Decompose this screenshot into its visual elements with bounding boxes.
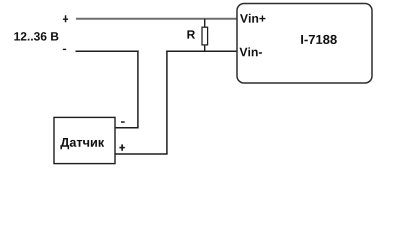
pin label Vin+ xyxy=(240,14,266,23)
sensor box xyxy=(54,117,115,163)
wire supply plus to Vin+ xyxy=(76,18,237,20)
node - (supply minus terminal) xyxy=(63,49,66,50)
wire into sensor minus terminal xyxy=(115,127,139,129)
resistor R top lead xyxy=(204,19,206,28)
resistor R bottom lead xyxy=(204,45,206,51)
pin label Vin- xyxy=(239,47,261,56)
resistor R body xyxy=(202,27,208,45)
wire vertical from Vin- line down to sensor plus xyxy=(166,51,168,155)
wire supply minus horizontal xyxy=(76,50,139,52)
node + (supply plus terminal) xyxy=(63,15,68,22)
sensor label Датчик xyxy=(60,138,104,149)
module I-7188 box xyxy=(237,4,372,84)
resistor label R xyxy=(187,30,195,38)
supply voltage label 12..36 В xyxy=(14,32,58,41)
wire into sensor plus terminal xyxy=(115,153,168,155)
wire supply minus vertical down to sensor minus xyxy=(137,51,139,128)
node - (sensor minus terminal) xyxy=(121,121,125,123)
node + (sensor plus terminal) xyxy=(119,144,124,150)
module label I-7188 xyxy=(301,35,337,44)
wire Vin- horizontal xyxy=(166,50,237,52)
